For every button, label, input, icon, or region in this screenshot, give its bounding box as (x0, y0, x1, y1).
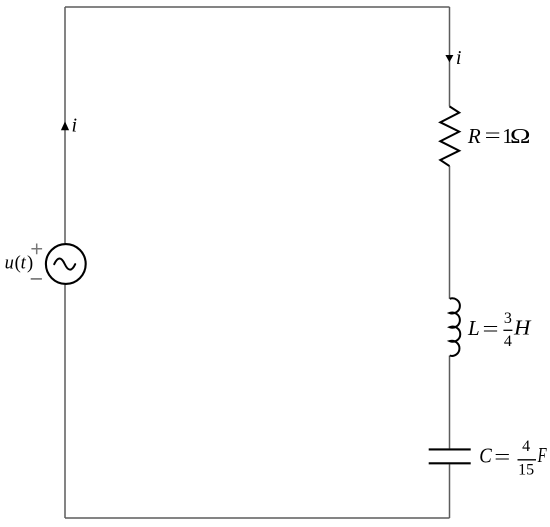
voltage source U circle (46, 244, 86, 284)
svg-text:i: i (456, 47, 462, 69)
svg-text:u: u (5, 253, 14, 273)
sine symbol inside source (54, 259, 75, 270)
svg-text:R: R (467, 124, 481, 148)
svg-text:L: L (467, 316, 480, 340)
resistor R (440, 106, 459, 166)
wire right upper segment (449, 7, 451, 106)
svg-text:15: 15 (518, 461, 534, 478)
svg-text:=: = (483, 317, 499, 341)
plus sign (31, 244, 42, 255)
svg-text:i: i (72, 115, 78, 137)
svg-text:C: C (479, 444, 492, 468)
current arrow right (down) (445, 55, 453, 62)
svg-text:F: F (537, 443, 547, 467)
svg-text:=: = (494, 445, 510, 469)
svg-text:4: 4 (522, 438, 530, 455)
fraction bar 3/4 (503, 329, 512, 331)
svg-text:3: 3 (504, 310, 512, 327)
svg-text:Ω: Ω (510, 124, 531, 148)
svg-text:=: = (485, 123, 501, 147)
svg-text:H: H (513, 316, 532, 340)
wire right between resistor and inductor (449, 166, 451, 299)
wire top edge (65, 6, 450, 8)
minus sign (31, 278, 42, 280)
wire bottom edge (65, 517, 450, 519)
fraction bar 4/15 (518, 459, 537, 461)
current arrow left (up) (61, 121, 69, 130)
wire right between inductor and capacitor (449, 356, 451, 449)
wire right below capacitor (449, 464, 451, 518)
wire left lower segment (64, 285, 66, 518)
svg-text:4: 4 (504, 333, 512, 350)
inductor L (450, 298, 461, 356)
svg-text:t: t (21, 253, 27, 273)
wire left upper segment (64, 7, 66, 243)
capacitor C plates (429, 448, 471, 450)
svg-text:): ) (27, 253, 33, 273)
